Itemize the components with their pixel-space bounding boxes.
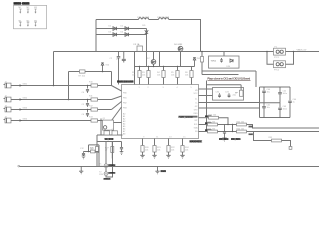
ground rail y166 bbox=[20, 166, 320, 168]
power flag x102 bbox=[101, 63, 110, 72]
diode D6 on y51 bbox=[174, 44, 183, 67]
svg-text:10k: 10k bbox=[142, 75, 145, 77]
svg-text:SCL: SCL bbox=[194, 124, 198, 126]
resistor R21 bbox=[152, 139, 161, 159]
net label stubs dark bbox=[205, 115, 212, 117]
wire y107.5 bbox=[199, 107, 260, 109]
wire loop bottom bbox=[106, 142, 113, 178]
wire vertical x68 bbox=[68, 72, 70, 100]
resistor R4 bbox=[157, 67, 165, 85]
capacitor C7 box bbox=[104, 129, 110, 135]
svg-text:PB0: PB0 bbox=[123, 93, 127, 95]
fuse F3 on y51 bbox=[134, 43, 143, 51]
svg-text:3: 3 bbox=[163, 87, 164, 89]
svg-text:10k: 10k bbox=[132, 75, 135, 77]
wire vertical to rail bbox=[98, 145, 100, 167]
wire vertical x134 bbox=[134, 52, 136, 85]
svg-text:PWR SW ARR: PWR SW ARR bbox=[117, 81, 134, 84]
inductor FB2 bbox=[158, 17, 170, 20]
svg-text:5: 5 bbox=[191, 87, 192, 89]
capacitor C41 bbox=[262, 103, 266, 118]
capacitor C44 bbox=[288, 87, 292, 118]
resistor R10 bbox=[89, 82, 98, 87]
capacitor C6 bbox=[82, 110, 90, 117]
svg-text:10k: 10k bbox=[185, 150, 188, 152]
junction dots on y66 bbox=[139, 66, 140, 67]
capacitor C43 bbox=[278, 103, 282, 118]
wire y70.5 bbox=[202, 71, 256, 87]
wire y66 bbox=[135, 66, 195, 68]
svg-text:10k: 10k bbox=[157, 75, 160, 77]
wire y71 bbox=[69, 72, 112, 86]
svg-text:10k: 10k bbox=[185, 75, 188, 77]
resistor R7 on y71 bbox=[79, 70, 86, 77]
crystal Y2 circle bbox=[99, 168, 108, 177]
resistor R12 bbox=[89, 106, 98, 111]
svg-text:13: 13 bbox=[169, 137, 171, 139]
svg-text:PB1: PB1 bbox=[123, 98, 127, 100]
svg-text:10k: 10k bbox=[193, 60, 196, 62]
wire y28 bbox=[96, 28, 147, 30]
connector J3 bbox=[4, 106, 112, 112]
wire y102 bbox=[199, 102, 260, 104]
resistor R32 row2b bbox=[237, 122, 320, 129]
fuse F2 bbox=[267, 52, 294, 72]
power flag VCC bbox=[193, 58, 201, 67]
snubber box A bbox=[209, 52, 240, 69]
wire y34 bbox=[96, 34, 147, 36]
capacitor C20 bbox=[222, 125, 226, 142]
svg-text:4: 4 bbox=[177, 87, 178, 89]
svg-text:VL_3V3: VL_3V3 bbox=[105, 138, 114, 141]
svg-text:R7 10k: R7 10k bbox=[79, 75, 85, 77]
resistor R5 bbox=[171, 67, 179, 85]
ground at x157 bbox=[155, 167, 159, 174]
LED D7 bbox=[147, 52, 156, 67]
wire diagonals into IC pins bbox=[112, 86, 122, 121]
resistor R20 bbox=[140, 139, 149, 159]
svg-text:D6 GRN: D6 GRN bbox=[174, 44, 183, 46]
resistor R34 row3b bbox=[237, 129, 320, 133]
connector J1 bbox=[4, 82, 112, 88]
wire y151 bbox=[84, 151, 100, 153]
svg-text:PB2: PB2 bbox=[123, 103, 127, 105]
net label dark bbox=[105, 138, 114, 140]
IC right pin labels bbox=[194, 90, 199, 133]
wire vertical x159 bbox=[159, 52, 161, 67]
wire y74 bbox=[202, 74, 239, 76]
mid rail bbox=[260, 102, 281, 104]
wire stub to box B pin2 bbox=[199, 95, 213, 97]
test point TP6 bbox=[34, 20, 38, 26]
junction dots connectors bbox=[53, 85, 55, 87]
svg-text:10u: 10u bbox=[267, 107, 270, 109]
capacitor C4 bbox=[82, 86, 90, 95]
test point TP5 bbox=[27, 20, 31, 26]
svg-text:GND: GND bbox=[161, 170, 167, 173]
capacitor bank bbox=[260, 87, 298, 118]
resistor R2 bbox=[132, 67, 141, 85]
svg-text:PWR_GOOD: PWR_GOOD bbox=[179, 116, 193, 119]
diode D4 bbox=[121, 32, 129, 37]
diode D5 vertical bbox=[143, 25, 149, 67]
net value labels right bbox=[249, 126, 254, 128]
crystal box B bbox=[207, 85, 244, 100]
wire stub bbox=[89, 145, 100, 152]
svg-text:TVS1: TVS1 bbox=[211, 60, 217, 62]
svg-text:I2C_SCL: I2C_SCL bbox=[219, 139, 229, 141]
inductor FB1 bbox=[138, 17, 150, 20]
test point TP1 bbox=[19, 7, 23, 13]
test point TP4 bbox=[19, 20, 23, 26]
wire y51 main bbox=[54, 51, 320, 53]
test point TP3 bbox=[34, 7, 38, 13]
connector J2 bbox=[4, 96, 112, 102]
svg-text:11: 11 bbox=[156, 137, 158, 139]
wire y140 bbox=[97, 141, 122, 143]
diode D2 bbox=[121, 26, 129, 31]
svg-text:PTC2: PTC2 bbox=[274, 70, 280, 72]
resistor R6 bbox=[185, 67, 193, 85]
svg-text:12MHz: 12MHz bbox=[108, 173, 116, 175]
fuse F1 bbox=[274, 46, 286, 59]
resistor R3 bbox=[142, 67, 150, 85]
note text bbox=[208, 77, 251, 81]
svg-text:GP2: GP2 bbox=[194, 110, 198, 112]
diode D1 bbox=[109, 26, 117, 31]
svg-text:VCC: VCC bbox=[194, 93, 199, 95]
svg-text:XTAL1: XTAL1 bbox=[104, 178, 112, 181]
wire vertical x53 bbox=[53, 52, 55, 86]
svg-text:10k: 10k bbox=[157, 150, 160, 152]
svg-text:10k: 10k bbox=[171, 75, 174, 77]
svg-text:2: 2 bbox=[148, 87, 149, 89]
resistor R22 bbox=[166, 139, 175, 159]
capacitor C12 bbox=[80, 148, 85, 159]
wire vertical x201.5 bbox=[201, 52, 203, 75]
svg-text:10u: 10u bbox=[267, 92, 270, 94]
capacitor C8 box bbox=[112, 129, 118, 135]
svg-text:F3 1A: F3 1A bbox=[134, 43, 140, 46]
svg-text:Place close to CX1 and CX2 (U1: Place close to CX1 and CX2 (U1) Board bbox=[208, 77, 251, 81]
wire vertical x206 bbox=[206, 81, 208, 132]
wire bbox=[149, 19, 159, 21]
ground at x80.7 bbox=[79, 167, 83, 174]
svg-text:1u: 1u bbox=[293, 102, 295, 104]
connector J4 bbox=[4, 117, 112, 123]
IC U1 bbox=[117, 80, 203, 143]
mounting holes box title bbox=[14, 2, 22, 5]
svg-text:I2C_SDA: I2C_SDA bbox=[231, 138, 241, 141]
junction vertical bbox=[232, 125, 234, 132]
svg-text:15: 15 bbox=[183, 137, 185, 139]
svg-text:100n: 100n bbox=[283, 109, 287, 111]
IC top pin numbers bbox=[139, 87, 192, 89]
resistor R25 bbox=[90, 148, 95, 153]
svg-text:A8: A8 bbox=[123, 133, 125, 136]
resistor R9 bbox=[193, 57, 204, 63]
wire vertical x95.5 bbox=[95, 20, 97, 52]
capacitor C40 bbox=[262, 87, 266, 103]
resistor R31 row2 bbox=[199, 122, 237, 126]
resistor R33 row3 bbox=[199, 129, 237, 133]
IC left pin labels bbox=[123, 93, 127, 136]
svg-text:PB3: PB3 bbox=[123, 108, 127, 110]
resistor R30 row1 bbox=[199, 115, 229, 125]
svg-text:PTC1: PTC1 bbox=[274, 57, 280, 59]
resistor R13 bbox=[89, 117, 98, 122]
diode D3 bbox=[109, 32, 117, 37]
svg-text:1: 1 bbox=[139, 87, 140, 89]
capacitor C2 top-left bbox=[110, 52, 121, 85]
capacitor C5 bbox=[82, 100, 90, 107]
svg-text:VBUS_5V: VBUS_5V bbox=[297, 50, 307, 52]
capacitor C11 + ground bbox=[120, 142, 124, 155]
net label GND bbox=[161, 170, 167, 172]
resistor R11 bbox=[89, 96, 98, 101]
svg-text:MAX3421E: MAX3421E bbox=[190, 140, 203, 143]
capacitor C42 bbox=[278, 87, 282, 103]
capacitor C9 bbox=[90, 135, 99, 167]
svg-text:MTG HOLES: MTG HOLES bbox=[14, 2, 31, 6]
svg-text:10k: 10k bbox=[171, 150, 174, 152]
transistor Q1 bbox=[103, 118, 122, 135]
wire vertical x100.5 bbox=[100, 119, 102, 136]
IC internal dark label bbox=[179, 116, 198, 118]
crystal Y1 circle bbox=[99, 142, 108, 169]
bank outline bbox=[260, 87, 291, 118]
net labels dark row bbox=[219, 138, 229, 140]
svg-text:9: 9 bbox=[143, 137, 144, 139]
wire bbox=[169, 20, 201, 52]
net labels bottom dark bbox=[108, 164, 115, 166]
svg-text:100n: 100n bbox=[283, 93, 287, 95]
wire y134.5 bbox=[97, 134, 123, 136]
svg-text:12M: 12M bbox=[99, 174, 103, 176]
wire stub to box B pin1 bbox=[199, 88, 213, 90]
svg-text:10k: 10k bbox=[145, 150, 148, 152]
resistor R35 low bbox=[254, 132, 292, 150]
resistor R24 bbox=[180, 139, 189, 159]
wire top rail y19 bbox=[96, 19, 139, 21]
mounting holes box bbox=[14, 5, 47, 29]
capacitor C10 bbox=[105, 142, 114, 159]
capacitor C1 hanging bbox=[116, 52, 126, 63]
test point TP2 bbox=[27, 7, 31, 13]
IC bottom pin numbers bbox=[143, 137, 185, 139]
